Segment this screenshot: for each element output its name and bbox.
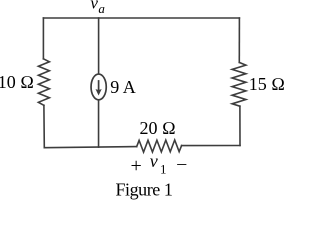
current source arrow shaft [98,80,100,91]
wire bottom-right [182,145,240,147]
svg-text:+: + [131,155,142,177]
current source arrow head [96,89,102,96]
svg-text:10 Ω: 10 Ω [0,72,34,92]
wire left-top [42,18,44,59]
resistor R1 10 ohm [38,59,49,106]
svg-text:20 Ω: 20 Ω [140,118,176,138]
svg-text:v: v [150,151,158,171]
wire left-bottom [43,105,45,147]
wire right-top [238,18,240,62]
svg-text:9 A: 9 A [110,77,136,97]
wire right-bottom [239,106,241,145]
svg-text:Figure 1: Figure 1 [116,180,173,200]
svg-text:v: v [90,0,98,13]
resistor R3 20 ohm [137,140,182,152]
wire bottom-left [44,147,136,148]
wire middle-top [98,18,100,73]
current source I1 9A circle [91,74,106,100]
svg-text:a: a [98,1,105,16]
svg-text:1: 1 [160,161,167,176]
svg-text:–: – [176,153,187,173]
resistor R2 15 ohm [232,62,246,106]
wire middle-bottom [98,101,100,147]
svg-text:15 Ω: 15 Ω [249,74,285,94]
wire top [43,17,239,19]
